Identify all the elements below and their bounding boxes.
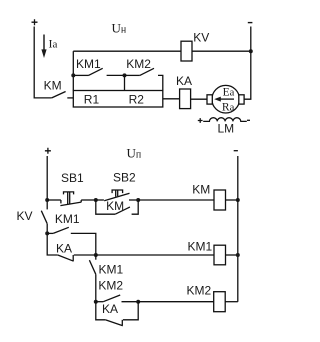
svg-text:KM2: KM2 xyxy=(126,57,151,71)
junction node right rail row1 xyxy=(236,198,240,202)
node + (upper supply positive terminal) xyxy=(32,19,38,25)
svg-text:KA: KA xyxy=(176,74,192,88)
button SB2 (start pushbutton, NO) xyxy=(104,190,129,201)
junction node right rail KV tap xyxy=(249,49,253,53)
junction node D xyxy=(94,300,98,304)
wire KM1 coil to right rail xyxy=(226,254,238,256)
polarity + of field winding xyxy=(198,118,203,123)
wire resistor box to KA coil xyxy=(163,98,180,100)
wire KV coil to right rail xyxy=(192,50,251,52)
svg-text:KM2: KM2 xyxy=(187,283,212,297)
wire bypass row segment 1 xyxy=(73,74,88,76)
node - (upper supply negative terminal) xyxy=(248,22,253,24)
svg-text:KM2: KM2 xyxy=(98,278,123,292)
svg-text:KM1: KM1 xyxy=(55,212,80,226)
wire node C to KM1 coil xyxy=(96,254,214,256)
svg-text:KM: KM xyxy=(192,183,210,197)
wire KM2 coil to right rail xyxy=(225,301,238,303)
wire SB1 to node A xyxy=(81,199,96,201)
junction node right rail row2 xyxy=(236,253,240,257)
polarity - of field winding xyxy=(247,119,250,121)
emf arrow inside motor xyxy=(214,97,234,102)
wire left rail from + down to KM contact corner xyxy=(34,27,52,98)
wire KV feed from left node xyxy=(73,50,181,52)
svg-text:KA: KA xyxy=(56,242,72,256)
button SB1 (stop pushbutton, NC) xyxy=(60,192,81,206)
svg-text:KV: KV xyxy=(17,209,33,223)
svg-text:SB2: SB2 xyxy=(113,171,136,185)
wire node C down to KM1 vertical contact xyxy=(95,255,97,260)
contact KA (current relay NC contact) xyxy=(58,255,74,261)
wire latch branch right-up xyxy=(132,200,139,214)
svg-text:Uп: Uп xyxy=(127,146,142,161)
contact KM (self-latch NO contact) xyxy=(115,207,130,214)
wire left node vertical (KV feed tap down to resistor box) xyxy=(72,51,74,90)
wire node D to KM2 contact xyxy=(96,301,103,303)
wire control left rail below KV contact xyxy=(47,224,58,255)
wire latch branch down-left xyxy=(96,200,115,214)
svg-text:KM: KM xyxy=(106,199,124,213)
contact KV (voltage relay NO contact, vertical) xyxy=(41,211,47,224)
wire SB2 to node B xyxy=(129,199,138,201)
wire node B to KM coil xyxy=(138,199,214,201)
contact KM1 (bypass contact over R1) xyxy=(89,68,103,75)
junction node A (SB2/KM parallel left) xyxy=(94,198,98,202)
wire KM1 branch to node C xyxy=(71,233,96,255)
contactor coil KM1 xyxy=(214,245,226,265)
motor M armature (circle with brushes) xyxy=(207,85,244,113)
contact KM1 (auxiliary NO contact, row 2 feed) xyxy=(53,227,69,233)
contact KA (current relay NC contact, bypass) xyxy=(105,320,123,326)
wire node E to KM2 coil xyxy=(138,301,214,303)
svg-text:LM: LM xyxy=(218,121,235,135)
contact KM1 (vertical NO contact in KM2 chain) xyxy=(89,260,95,274)
wire KM1 branch row xyxy=(47,232,53,234)
svg-text:KM1: KM1 xyxy=(188,239,213,253)
contactor coil KM xyxy=(214,190,226,210)
resistor box R1 R2 (starting resistors) xyxy=(73,91,163,108)
svg-text:R1: R1 xyxy=(84,93,100,107)
wire bypass row segment 2 xyxy=(107,74,125,76)
junction node left of bypass row xyxy=(71,73,75,77)
wire mid node to KM2 contact xyxy=(125,74,140,76)
wire bypass row right end down to resistor box xyxy=(158,75,163,90)
relay coil KA (current relay) xyxy=(180,89,191,109)
junction node middle of bypass row xyxy=(123,73,127,77)
wire right rail from - down to motor xyxy=(244,27,251,100)
junction node E xyxy=(136,300,140,304)
svg-text:R2: R2 xyxy=(129,93,145,107)
svg-text:KM: KM xyxy=(44,78,62,92)
svg-text:Uн: Uн xyxy=(112,20,127,35)
wire control left rail (+ down through KV contact zone) xyxy=(46,156,48,209)
svg-text:KA: KA xyxy=(102,302,118,316)
wire KM2 contact to node E xyxy=(122,301,139,303)
wire KA coil to motor brush xyxy=(191,98,207,100)
wire KM coil to right rail xyxy=(226,199,238,201)
wire node A to SB2 xyxy=(96,199,104,201)
junction node C xyxy=(94,253,98,257)
contactor coil KM2 xyxy=(214,292,226,312)
current arrow Ia xyxy=(41,35,46,59)
svg-text:Ia: Ia xyxy=(49,36,58,50)
wire KM1 vertical contact down to node D xyxy=(95,274,97,301)
wire KA bypass branch right-up xyxy=(123,302,138,320)
svg-text:KM1: KM1 xyxy=(99,263,124,277)
svg-text:KV: KV xyxy=(193,30,209,44)
contact KM2 (auxiliary NO contact) xyxy=(103,295,120,302)
contact KM2 (bypass contact over R2) xyxy=(140,68,154,75)
node - (control supply negative terminal) xyxy=(234,150,238,152)
svg-text:KM1: KM1 xyxy=(76,57,101,71)
svg-text:Ea: Ea xyxy=(223,87,235,99)
wire divider drop from mid node into resistor box xyxy=(124,75,126,107)
field winding LM (inductor) xyxy=(203,118,247,122)
junction node left rail KM1 branch xyxy=(45,231,49,235)
svg-text:SB1: SB1 xyxy=(61,171,84,185)
svg-text:Ra: Ra xyxy=(222,101,235,113)
wire KA contact to node C xyxy=(74,254,96,256)
junction node left rail row1 xyxy=(45,198,49,202)
relay coil KV (voltage relay) xyxy=(181,41,192,61)
wire control right rail xyxy=(237,156,239,302)
node + (control supply positive terminal) xyxy=(45,148,51,154)
wire KA bypass branch left-down xyxy=(96,302,106,320)
wire row1 rail to SB1 xyxy=(47,199,61,201)
contact KM (main line contactor contact) xyxy=(52,92,74,98)
junction node B (SB2/KM parallel right) xyxy=(136,198,140,202)
